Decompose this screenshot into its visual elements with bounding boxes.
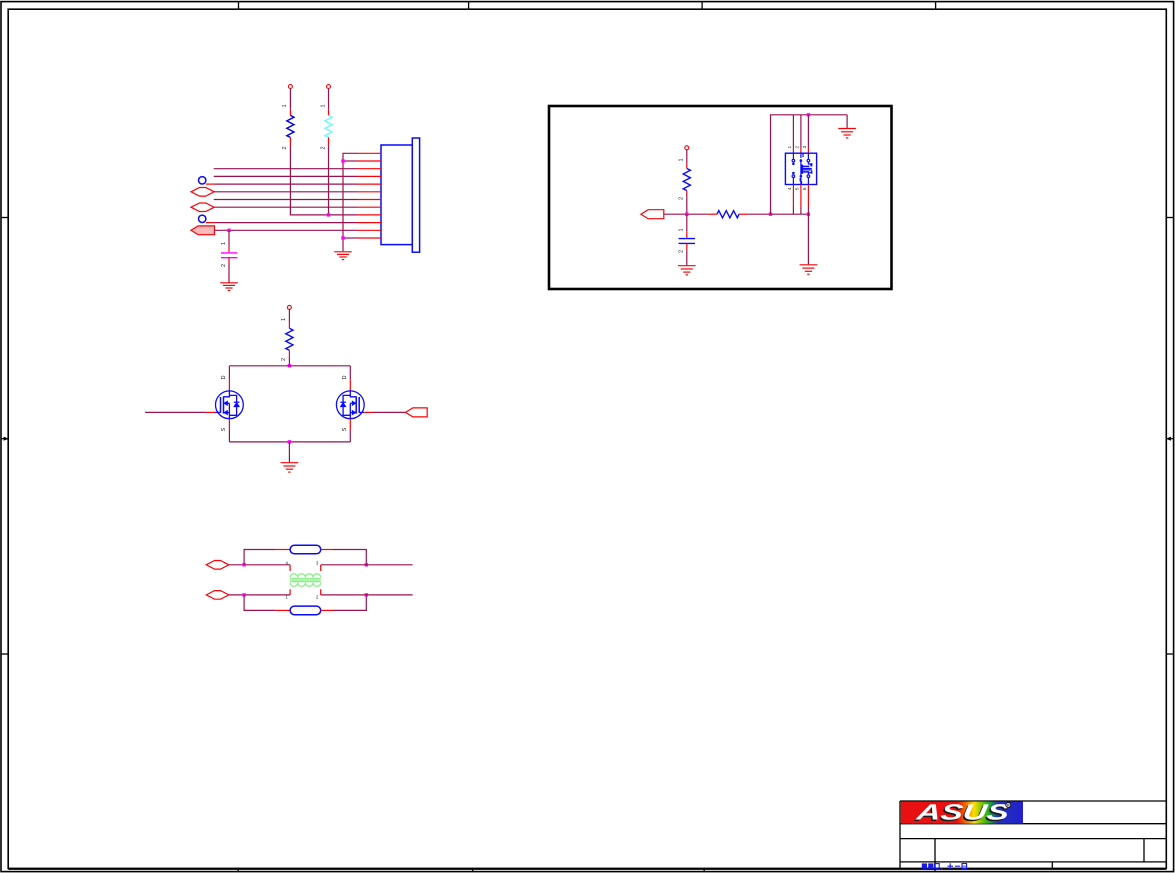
svg-text:5: 5	[794, 187, 800, 190]
wire R4 to node2	[748, 213, 770, 215]
wire row pin9	[329, 214, 358, 216]
svg-text:1: 1	[320, 104, 326, 107]
port diamond P2	[191, 188, 214, 197]
bead L1 (pill)	[276, 545, 333, 554]
title block row lines	[900, 801, 1166, 862]
transistor Q1	[216, 391, 244, 419]
port arrow P6 (hollow)	[641, 210, 664, 219]
port diamond P8	[206, 561, 229, 570]
wire pin2 drop	[800, 115, 802, 153]
svg-text:S: S	[342, 427, 348, 431]
port arrow P5 (pink)	[191, 226, 215, 235]
left center arrow	[1, 437, 9, 441]
transformer T1 windings	[290, 574, 321, 587]
wire Q1 drain lead	[221, 366, 230, 391]
wire pin3 drop	[807, 115, 809, 153]
pin labels 4 5 6	[787, 187, 808, 190]
wire Q2 source lead	[342, 419, 351, 442]
transformer T1 stubs bottom	[290, 589, 321, 595]
svg-text:ASUS: ASUS	[914, 799, 1011, 824]
wire row pin4	[214, 175, 358, 177]
svg-text:2: 2	[320, 146, 326, 149]
svg-text:1: 1	[787, 146, 793, 149]
pin labels 1 2 3	[787, 146, 808, 149]
wire pin1 elbow to ground bus	[343, 153, 358, 251]
wire R2 down	[328, 145, 330, 215]
right zone ticks	[1166, 218, 1173, 655]
ground under connector	[334, 252, 352, 260]
wire row pin10	[215, 222, 358, 224]
junction node R3	[685, 213, 688, 216]
port arrow P7 (hollow)	[406, 408, 428, 417]
outline box	[549, 106, 892, 289]
wire top-right out	[321, 564, 413, 566]
ground bottom of box	[800, 265, 818, 274]
resistor R2 (cyan)	[320, 85, 332, 150]
svg-text:6: 6	[802, 187, 808, 190]
wire lower loop left	[244, 595, 276, 611]
port diamond P9	[206, 591, 229, 600]
wire row pin3	[214, 168, 358, 170]
wire top to right ground	[846, 115, 848, 128]
junction pin6 node	[807, 213, 810, 216]
wire Q2 drain lead	[342, 366, 351, 391]
resistor R3 (vertical)	[679, 146, 691, 214]
left zone ticks	[1, 218, 8, 655]
title block verticals	[935, 839, 1144, 872]
junction top rail	[288, 364, 291, 367]
top rail wire	[229, 365, 350, 367]
wire row pin11	[215, 229, 358, 231]
svg-text:2: 2	[221, 264, 227, 267]
svg-text:3: 3	[802, 146, 808, 149]
wire row pin7	[214, 199, 358, 201]
svg-text:1: 1	[679, 228, 685, 231]
svg-text:2: 2	[281, 358, 287, 361]
ground mosfet pair	[281, 463, 299, 472]
bottom zone ticks	[238, 868, 704, 871]
title block left vertical	[899, 801, 901, 868]
junction D top-right	[365, 563, 368, 566]
ASUS logo	[901, 799, 1023, 825]
ground under C2	[678, 266, 696, 275]
svg-text:2: 2	[679, 197, 685, 200]
junction D top-left	[242, 563, 245, 566]
junction row11 cap	[227, 229, 230, 232]
transistor Q2	[336, 391, 364, 419]
wire row pin8	[214, 206, 357, 208]
svg-text:S: S	[221, 427, 227, 431]
transformer T1 pin labels top	[285, 560, 319, 565]
wire lower loop right	[333, 595, 366, 611]
svg-text:1: 1	[679, 158, 685, 161]
junction node2	[769, 213, 772, 216]
junction top pin3	[807, 113, 810, 116]
transformer T1 pin labels bottom	[285, 595, 319, 600]
capacitor C2 (blue)	[679, 214, 695, 265]
wire row pin6	[214, 191, 357, 193]
wire row pin5	[215, 183, 358, 185]
wire port to node	[664, 213, 708, 215]
svg-text:D: D	[342, 375, 348, 379]
port circle P4	[199, 215, 215, 223]
right center arrow	[1166, 437, 1174, 441]
capacitor C1 (magenta)	[221, 230, 238, 282]
junction pin12	[341, 236, 344, 239]
wire Q2 gate to port	[364, 411, 405, 413]
wire Q1 source lead	[221, 419, 230, 442]
dual-mosfet U1 body	[785, 153, 816, 184]
ground under C1	[220, 283, 238, 291]
resistor R1 (blue)	[282, 85, 294, 150]
svg-text:4: 4	[787, 187, 793, 190]
wire P8 to node	[229, 564, 290, 566]
transformer T1 stubs top	[290, 565, 321, 571]
wire R1 to row9	[290, 145, 328, 215]
wire pin4 drop to bus	[792, 185, 794, 215]
svg-text:2: 2	[282, 146, 288, 149]
bottom rail wire	[229, 441, 350, 443]
wire pin6 drop to bus	[807, 185, 809, 215]
svg-text:R: R	[1007, 803, 1010, 808]
wire bottom-right out	[321, 594, 413, 596]
junction pin2	[341, 159, 344, 162]
junction D bottom-left	[242, 593, 245, 596]
svg-text:1: 1	[221, 242, 227, 245]
svg-text:2: 2	[794, 146, 800, 149]
wire P9 to node	[229, 594, 290, 596]
wire upper loop right	[333, 550, 366, 565]
port diamond P3	[191, 203, 214, 212]
wire upper loop left	[244, 550, 276, 565]
resistor R4 (horizontal)	[708, 211, 748, 218]
wire rail to ground	[288, 442, 290, 462]
wire pin1 drop	[792, 115, 794, 153]
top zone ticks	[239, 2, 936, 10]
ground top right of box	[838, 129, 856, 138]
wire pin6 node to bottom ground	[807, 214, 809, 264]
connector J1 pin stubs 1-12	[358, 153, 382, 238]
svg-text:1: 1	[281, 318, 287, 321]
date text (blue CJK)	[922, 863, 967, 869]
wire pin5 drop to bus	[800, 185, 802, 215]
junction D bottom-right	[365, 593, 368, 596]
svg-text:2: 2	[679, 250, 685, 253]
connector J1 body	[381, 138, 420, 252]
junction R2 row9	[327, 213, 330, 216]
svg-text:D: D	[221, 375, 227, 379]
svg-text:1: 1	[282, 104, 288, 107]
resistor R5	[281, 305, 293, 365]
U1 internals	[792, 153, 812, 184]
junction bottom rail	[288, 440, 291, 443]
bead L2 (pill)	[276, 606, 333, 615]
wire node2 riser loop	[771, 115, 848, 214]
wire bus node2 to pin6	[771, 213, 809, 215]
port circle P1	[199, 177, 215, 185]
wire Q1 gate lead	[145, 411, 215, 413]
